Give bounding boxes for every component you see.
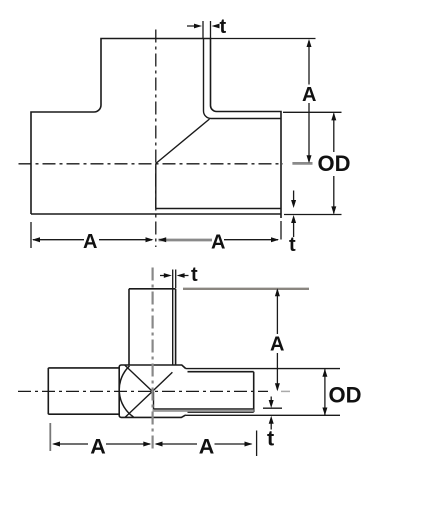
svg-text:A: A xyxy=(302,84,316,106)
svg-text:A: A xyxy=(211,232,225,254)
svg-text:t: t xyxy=(220,16,227,38)
svg-text:A: A xyxy=(270,334,284,356)
svg-text:A: A xyxy=(90,435,106,459)
svg-text:t: t xyxy=(191,264,198,286)
svg-text:t: t xyxy=(289,234,296,256)
svg-text:A: A xyxy=(199,435,215,459)
svg-text:A: A xyxy=(83,231,97,253)
svg-text:OD: OD xyxy=(318,151,351,176)
svg-text:t: t xyxy=(267,427,274,451)
svg-text:OD: OD xyxy=(329,383,362,408)
